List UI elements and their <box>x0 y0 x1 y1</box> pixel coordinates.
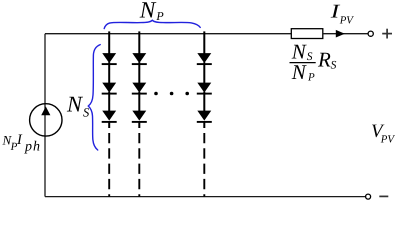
svg-text:S: S <box>307 51 313 63</box>
wire lead below D2c <box>138 122 140 128</box>
label NS (left) <box>66 92 90 120</box>
diode D3c <box>198 111 210 120</box>
label NP Iph <box>2 132 42 154</box>
wire <box>203 62 205 83</box>
diode D3a <box>198 54 210 63</box>
diode D1c <box>103 111 115 120</box>
label fraction NS/NP RS <box>290 40 337 84</box>
brace NP (blue, top) <box>104 20 200 28</box>
ellipsis dots <box>154 92 189 96</box>
wire <box>138 92 140 111</box>
diode D2a <box>133 54 145 63</box>
svg-text:S: S <box>83 105 90 119</box>
label IPV <box>329 2 354 27</box>
diode string column 1 <box>102 31 117 196</box>
terminal + (top right) <box>368 31 373 36</box>
diode D1a <box>103 54 115 63</box>
label NP (top) <box>139 0 165 24</box>
wire bottom <box>45 196 366 198</box>
wire lead below D1c <box>108 122 110 128</box>
svg-text:ph: ph <box>24 139 41 154</box>
wire resistor to terminal <box>323 33 368 35</box>
wire <box>203 92 205 111</box>
terminal - (bottom right) <box>366 194 371 199</box>
svg-text:N: N <box>66 92 84 117</box>
wire dashed column 1 <box>108 133 110 197</box>
diode D2b <box>133 83 145 92</box>
svg-text:PV: PV <box>339 15 355 27</box>
svg-text:PV: PV <box>380 133 396 145</box>
svg-text:N: N <box>291 60 307 84</box>
wire left <box>44 34 46 197</box>
wire <box>108 92 110 111</box>
label VPV <box>371 121 395 145</box>
current source I1 arrow <box>41 107 50 116</box>
current source I1 circle <box>30 104 62 136</box>
svg-text:P: P <box>307 71 315 83</box>
wire <box>138 62 140 83</box>
wire column 2 top lead <box>138 31 140 53</box>
svg-text:R: R <box>317 48 331 72</box>
wire column 3 top lead <box>203 31 205 53</box>
minus sign <box>379 195 388 197</box>
brace NS (blue, left) <box>88 45 100 150</box>
svg-text:S: S <box>331 60 337 72</box>
wire dashed column 3 <box>203 133 205 197</box>
diode D2c <box>133 111 145 120</box>
diode D3b <box>198 83 210 92</box>
wire dashed column 2 <box>138 133 140 197</box>
wire column 1 top lead <box>108 31 110 53</box>
resistor RS body <box>291 29 323 39</box>
svg-text:P: P <box>155 9 164 23</box>
current arrow IPV <box>336 30 345 38</box>
wire lead below D3c <box>203 122 205 128</box>
diode string column 2 <box>132 31 147 196</box>
svg-text:N: N <box>139 0 157 24</box>
svg-text:I: I <box>16 132 23 148</box>
plus sign <box>382 29 392 39</box>
wire top <box>45 33 291 35</box>
diode string column 3 <box>197 31 212 196</box>
wire <box>108 62 110 83</box>
diode D1b <box>103 83 115 92</box>
